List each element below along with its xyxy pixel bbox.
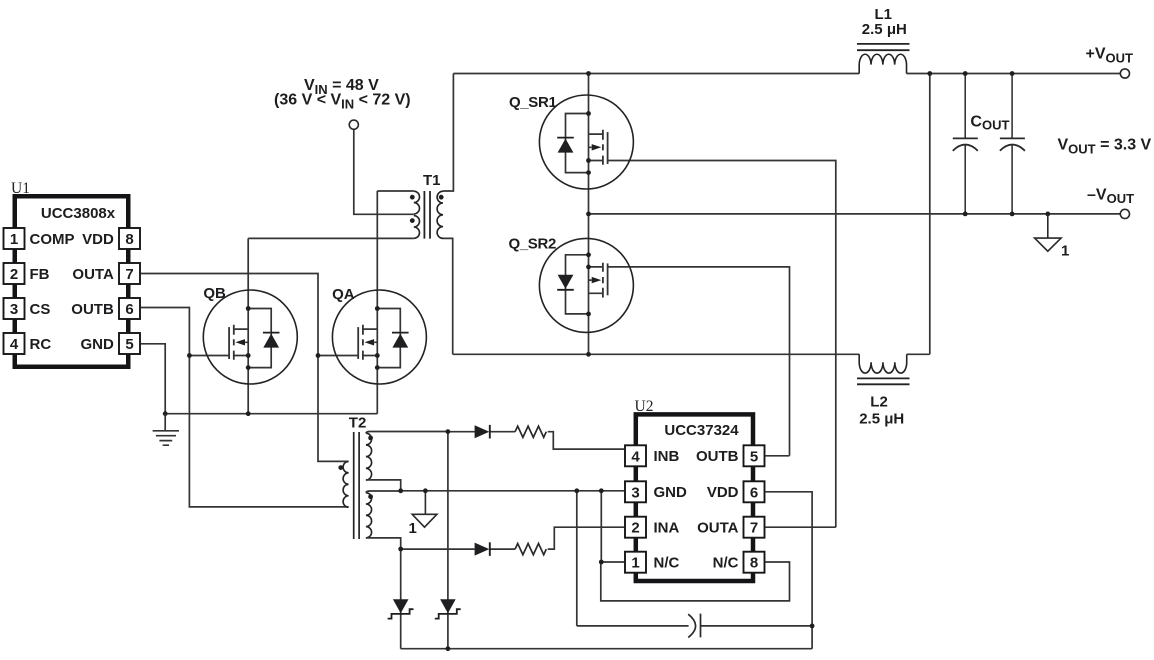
svg-text:6: 6	[750, 484, 758, 501]
svg-text:4: 4	[631, 448, 640, 465]
wire Q_SR1 gate to U2 OUTA pin7	[608, 161, 836, 528]
ground symbol under U1 GND	[153, 414, 179, 446]
svg-text:OUTB: OUTB	[696, 448, 739, 465]
op-amp U1 UCC3808x body	[15, 196, 129, 367]
transistor Q_SR2	[539, 238, 633, 332]
diode D INA	[475, 543, 490, 556]
wire schottky branch 2 vertical	[447, 432, 449, 649]
svg-text:(36 V < VIN < 72 V): (36 V < VIN < 72 V)	[274, 92, 411, 112]
T1 primary upper winding	[414, 191, 420, 214]
svg-text:VDD: VDD	[82, 231, 114, 248]
svg-text:3: 3	[10, 301, 18, 318]
T1 primary lower winding	[414, 216, 420, 239]
T2 secondary lower winding	[366, 493, 372, 538]
terminal +VOUT	[1120, 69, 1129, 78]
node ground1 tap	[423, 488, 428, 493]
terminal VIN	[349, 120, 358, 129]
svg-text:OUTA: OUTA	[72, 266, 114, 283]
svg-text:2.5 μH: 2.5 μH	[862, 21, 907, 38]
node T2 lower bottom / INA tap	[398, 547, 403, 552]
node -VOUT ground tap	[1045, 212, 1050, 217]
U2 pin 2	[625, 517, 646, 538]
transformer T1	[414, 191, 443, 239]
wire T1 secondary top lead up to +rail	[443, 74, 453, 192]
wire INA path diode to resistor to U2 pin2	[401, 527, 624, 549]
svg-text:2: 2	[10, 266, 18, 283]
wire U2 VDD pin6 to bottom rail	[766, 492, 813, 649]
U1 pin 1	[4, 228, 25, 249]
wire T2 secondary lower bottom lead	[366, 538, 401, 549]
diode D INB	[475, 425, 490, 438]
svg-text:5: 5	[750, 448, 758, 465]
capacitor COUT 2	[1000, 74, 1025, 214]
svg-text:OUTB: OUTB	[71, 301, 114, 318]
T2 secondary upper winding	[366, 433, 372, 480]
U1 pin 6	[119, 298, 140, 319]
U2 pin 6	[744, 481, 765, 502]
svg-text:INB: INB	[654, 448, 680, 465]
svg-text:COUT: COUT	[970, 114, 1009, 133]
T1 primary lower phasing dot	[410, 218, 415, 223]
U1 pin 7	[119, 263, 140, 284]
wire QB gate lead	[189, 355, 229, 357]
svg-text:U2: U2	[635, 398, 654, 415]
svg-text:N/C: N/C	[654, 555, 680, 572]
svg-text:Q_SR1: Q_SR1	[509, 94, 556, 111]
svg-text:INA: INA	[654, 520, 680, 537]
transistor QB	[203, 290, 297, 384]
T1 primary upper phasing dot	[410, 195, 415, 200]
wire VIN input drop to T1 center tap	[354, 129, 414, 214]
svg-text:U1: U1	[11, 180, 30, 197]
wire coupling cap right to VDD branch	[701, 625, 813, 627]
U2 pin 1	[625, 552, 646, 573]
svg-text:UCC3808x: UCC3808x	[41, 205, 116, 222]
schottky diode 1	[393, 599, 409, 613]
IC U2 UCC37324 body	[636, 414, 753, 581]
svg-text:–VOUT: –VOUT	[1087, 186, 1134, 206]
svg-text:GND: GND	[654, 484, 688, 501]
wire U1 OUTB pin6 to QB gate and T2 primary bottom	[141, 308, 349, 507]
node Q_SR2 source on bottom rail	[586, 352, 591, 357]
node cap1 top	[963, 71, 968, 76]
U1 pin 2	[4, 263, 25, 284]
svg-text:2: 2	[631, 520, 639, 537]
svg-text:7: 7	[125, 266, 133, 283]
svg-text:L2: L2	[870, 394, 888, 411]
wire QA gate lead	[318, 355, 358, 357]
T2 secondary lower phasing dot	[368, 494, 373, 499]
wire top rail to L1	[453, 73, 859, 75]
wire bottom supply rail	[401, 648, 812, 650]
T2 primary winding	[343, 461, 349, 507]
svg-text:1: 1	[631, 555, 639, 572]
node cap1 bottom	[963, 212, 968, 217]
wire Q_SR1 Q_SR2 drain-source vertical	[588, 74, 590, 355]
node schottky2 on bottom rail	[446, 646, 451, 651]
svg-text:CS: CS	[30, 301, 51, 318]
wire SR midpoint to -VOUT terminal	[589, 213, 1121, 215]
transistor Q_SR1	[539, 95, 633, 189]
schottky diode 2	[440, 599, 456, 613]
ground 1 symbol at -VOUT	[1035, 214, 1062, 251]
wire QB drain-source vertical	[247, 238, 249, 413]
node QA gate junction	[316, 353, 321, 358]
node pin1 wire junction	[599, 560, 604, 565]
inductor L1	[857, 44, 910, 74]
wire INB path diode to resistor to U2 pin4	[448, 432, 624, 449]
svg-text:T1: T1	[423, 172, 441, 189]
svg-text:1: 1	[10, 231, 18, 248]
resistor R INB	[515, 426, 546, 437]
T1 core	[424, 191, 430, 239]
wire T1 primary bottom lead to QB drain	[248, 237, 414, 239]
node QB gate junction	[187, 353, 192, 358]
node cap2 top	[1010, 71, 1015, 76]
svg-text:+VOUT: +VOUT	[1086, 46, 1134, 66]
wire QA drain vertical	[376, 191, 378, 414]
ground 1 symbol at T2 center tap	[412, 491, 437, 527]
U2 pin 5	[744, 445, 765, 466]
node QB source on rail	[246, 411, 251, 416]
svg-text:6: 6	[125, 301, 133, 318]
T2 secondary upper phasing dot	[368, 436, 373, 441]
node Q_SR1 drain on +rail	[586, 71, 591, 76]
svg-text:1: 1	[1061, 243, 1069, 260]
T1 secondary winding	[437, 191, 443, 238]
node pin1 branch on GND	[599, 488, 604, 493]
U2 pin 7	[744, 517, 765, 538]
svg-text:VOUT = 3.3 V: VOUT = 3.3 V	[1058, 137, 1152, 157]
svg-text:5: 5	[125, 336, 133, 353]
U2 pin 3	[625, 481, 646, 502]
wire T2 secondary upper bottom lead to center tap	[366, 480, 401, 491]
U1 pin 3	[4, 298, 25, 319]
U1 pin 8	[119, 228, 140, 249]
svg-text:1: 1	[409, 520, 417, 537]
U1 pin 4	[4, 333, 25, 354]
node GND rail at U1	[163, 411, 168, 416]
svg-text:GND: GND	[80, 336, 114, 353]
U2 pin 8	[744, 552, 765, 573]
node cap2 bottom	[1010, 212, 1015, 217]
wire coupling cap left	[577, 625, 689, 627]
transistor QA	[332, 290, 426, 384]
wire T1 primary top lead to QA drain	[377, 190, 414, 192]
wire L2 right end to vertical	[907, 353, 930, 355]
capacitor coupling bottom	[688, 614, 700, 638]
resistor R INA	[515, 544, 546, 555]
wire Q_SR2 gate to U2 OUTB pin5	[608, 267, 790, 456]
wire schottky branch 1 vertical	[400, 549, 402, 649]
terminal -VOUT	[1120, 209, 1129, 218]
svg-text:N/C: N/C	[713, 555, 739, 572]
svg-text:Q_SR2: Q_SR2	[509, 235, 556, 252]
node L1 output / L2 tie	[927, 71, 932, 76]
wire U2 pin1 to pin8 loop	[601, 562, 790, 601]
svg-text:FB: FB	[30, 266, 50, 283]
U1 pin 5	[119, 333, 140, 354]
node T2 center tap	[398, 488, 403, 493]
wire T1 secondary bottom lead down to bottom rail	[443, 238, 453, 354]
wire T2 secondary upper top lead	[366, 432, 448, 434]
svg-text:3: 3	[631, 484, 639, 501]
svg-text:T2: T2	[349, 414, 367, 431]
wire GND branch down to pin1	[600, 491, 602, 562]
inductor L2	[857, 354, 910, 384]
wire junction vertical joining +rail to L2 right end	[929, 74, 931, 355]
wire T2 secondary lower top lead to center tap	[366, 491, 401, 493]
svg-text:QB: QB	[203, 285, 226, 302]
wire GND branch down to coupling cap	[576, 491, 578, 626]
wire L1 to +VOUT terminal	[907, 73, 1121, 75]
capacitor COUT 1	[953, 74, 978, 214]
wire GND net T2 center tap to U2 pin3	[401, 490, 624, 492]
transformer T2	[343, 432, 372, 539]
wire U1 OUTA pin7 to QA gate and T2 primary top	[141, 274, 349, 462]
svg-text:VDD: VDD	[707, 484, 739, 501]
svg-text:2.5 μH: 2.5 μH	[859, 410, 904, 427]
wire bottom rail to L2	[453, 353, 860, 355]
T1 secondary phasing dot	[439, 195, 444, 200]
node VDD cap junction	[810, 624, 815, 629]
node cap branch on GND	[574, 488, 579, 493]
svg-text:COMP: COMP	[30, 231, 75, 248]
svg-text:OUTA: OUTA	[697, 520, 739, 537]
svg-text:7: 7	[750, 520, 758, 537]
svg-text:4: 4	[10, 336, 19, 353]
node SR midpoint	[586, 212, 591, 217]
T2 core	[354, 432, 359, 539]
wire U1 GND pin5 to source rail	[141, 344, 377, 414]
svg-text:8: 8	[125, 231, 133, 248]
svg-text:UCC37324: UCC37324	[664, 422, 739, 439]
node T2 upper top / INB tap	[446, 429, 451, 434]
svg-text:8: 8	[750, 555, 758, 572]
T2 primary phasing dot	[338, 465, 343, 470]
U2 pin 4	[625, 445, 646, 466]
svg-text:QA: QA	[332, 286, 355, 303]
svg-text:RC: RC	[30, 336, 52, 353]
